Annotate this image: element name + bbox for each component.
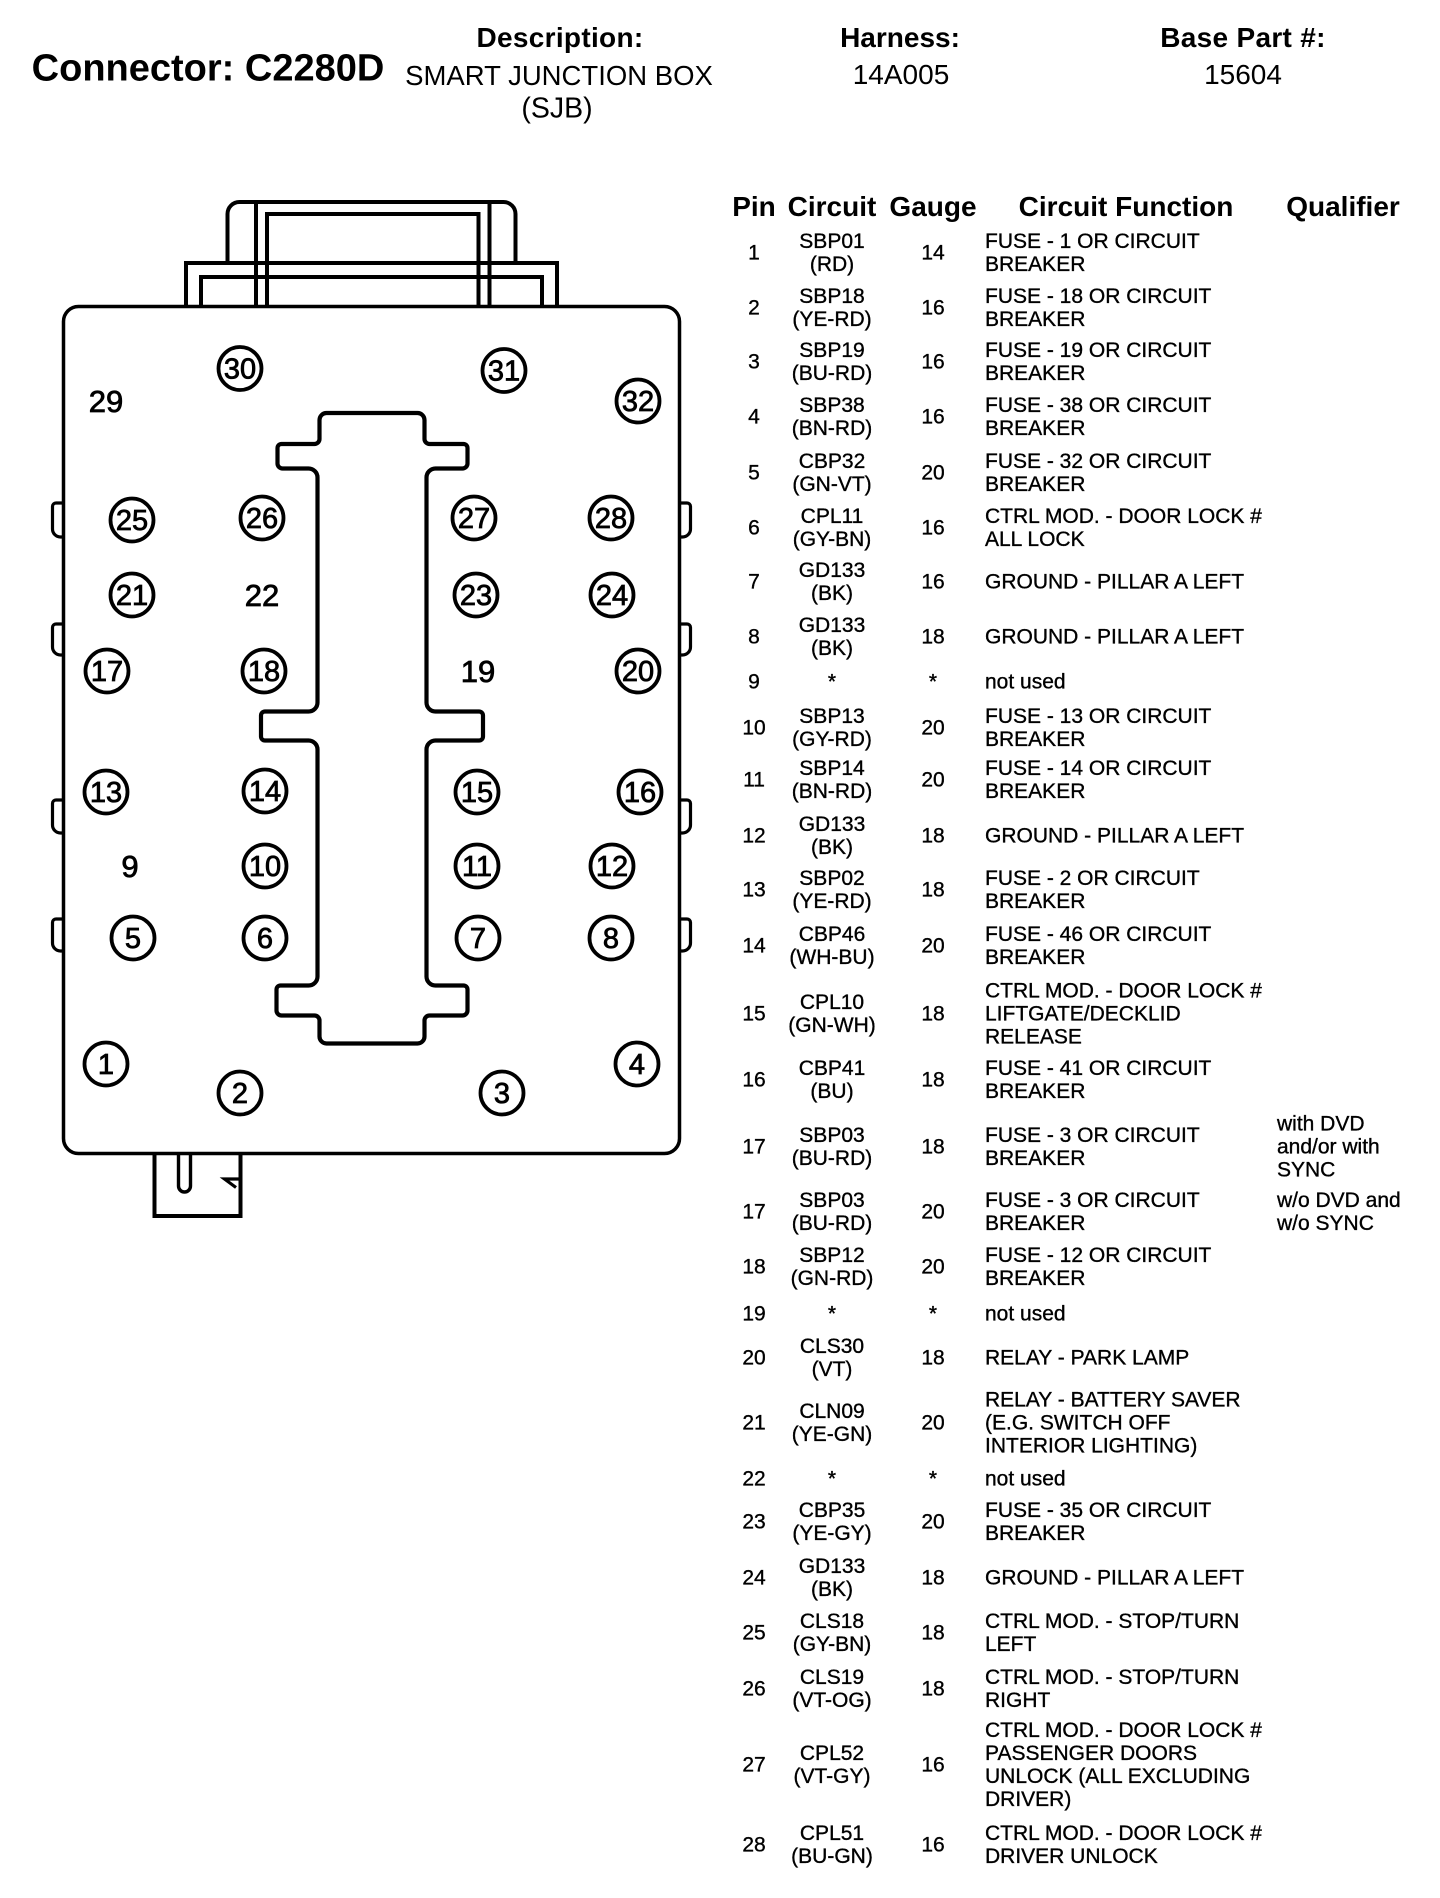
- pin 5: [112, 917, 155, 960]
- svg-text:20: 20: [622, 656, 654, 688]
- description value line 2: [521, 92, 592, 125]
- svg-text:30: 30: [224, 354, 256, 386]
- pin 20: [617, 650, 660, 693]
- pin 28: [590, 497, 633, 540]
- left edge tab 2: [53, 624, 65, 655]
- table row pin 18: [742, 1255, 765, 1278]
- right edge tab 4: [679, 919, 691, 951]
- table row pin 25: [742, 1621, 765, 1644]
- pin 8: [590, 917, 633, 960]
- svg-text:7: 7: [470, 923, 486, 955]
- svg-text:16: 16: [624, 777, 656, 809]
- svg-text:23: 23: [460, 580, 492, 612]
- svg-text:12: 12: [596, 851, 628, 883]
- table row pin 17b: [742, 1201, 765, 1224]
- pin 12: [591, 845, 634, 888]
- svg-text:22: 22: [245, 578, 279, 613]
- table row pin 5: [748, 462, 760, 485]
- svg-text:4: 4: [629, 1049, 645, 1081]
- svg-text:24: 24: [596, 580, 628, 612]
- table header: Pin: [732, 191, 776, 223]
- table row pin 21: [742, 1411, 765, 1434]
- table row pin 24: [742, 1566, 765, 1589]
- table row pin 28: [742, 1834, 765, 1857]
- pin 6: [244, 917, 287, 960]
- connector body outline: [64, 307, 680, 1154]
- table row pin 7: [748, 571, 760, 594]
- top latch tab divider right: [488, 204, 492, 306]
- table row pin 6: [748, 517, 760, 540]
- top latch tab (inner rectangle): [267, 214, 479, 306]
- svg-text:2: 2: [232, 1078, 248, 1110]
- table row pin 26: [742, 1677, 765, 1700]
- svg-text:29: 29: [89, 384, 123, 419]
- table row pin 3: [748, 351, 760, 374]
- svg-text:28: 28: [595, 503, 627, 535]
- table row pin 17: [742, 1136, 765, 1159]
- pin 4: [616, 1043, 659, 1086]
- right edge tab 3: [679, 800, 691, 833]
- left edge tab 1: [53, 503, 65, 537]
- connector face drawing: [0, 0, 760, 1280]
- table row pin 22: [742, 1468, 765, 1491]
- pin 27: [453, 497, 496, 540]
- top mounting tab (wide outer): [186, 263, 557, 306]
- table row pin 27: [742, 1754, 765, 1777]
- left edge tab 4: [53, 919, 65, 951]
- table row pin 4: [748, 406, 760, 429]
- left edge tab 3: [53, 800, 65, 833]
- svg-text:21: 21: [116, 580, 148, 612]
- table row pin 2: [748, 296, 760, 319]
- svg-text:3: 3: [494, 1078, 510, 1110]
- svg-text:8: 8: [603, 923, 619, 955]
- table row pin 12: [742, 825, 765, 848]
- pin 18: [243, 650, 286, 693]
- pin 7: [457, 917, 500, 960]
- svg-text:6: 6: [257, 923, 273, 955]
- pin 3: [481, 1072, 524, 1115]
- pin 26: [241, 497, 284, 540]
- description value line 1: [405, 60, 713, 92]
- top latch tab divider left: [254, 204, 258, 306]
- table row pin 15: [742, 1002, 765, 1025]
- pin 17: [86, 650, 129, 693]
- header label: Description: [477, 22, 644, 54]
- table row pin 16: [742, 1069, 765, 1092]
- table header: Qualifier: [1286, 191, 1400, 223]
- bottom tab slot: [179, 1155, 191, 1192]
- svg-text:1: 1: [98, 1049, 114, 1081]
- pin 11: [456, 845, 499, 888]
- page title: Connector: C2280D: [32, 48, 385, 91]
- pin 25: [111, 499, 154, 542]
- table header: Circuit Function: [1019, 191, 1234, 223]
- svg-text:14: 14: [249, 776, 281, 808]
- svg-text:13: 13: [90, 777, 122, 809]
- svg-text:15: 15: [461, 777, 493, 809]
- pin 1: [85, 1043, 128, 1086]
- svg-text:32: 32: [622, 386, 654, 418]
- right edge tab 1: [679, 503, 691, 537]
- svg-text:11: 11: [462, 851, 492, 883]
- pin 10: [244, 845, 287, 888]
- table row pin 10: [742, 716, 765, 739]
- svg-text:10: 10: [249, 851, 281, 883]
- table header: Circuit: [788, 191, 877, 223]
- pin 23: [455, 574, 498, 617]
- svg-text:26: 26: [246, 503, 278, 535]
- table row pin 14: [742, 935, 765, 958]
- pin 21: [111, 574, 154, 617]
- pin 13: [85, 771, 128, 814]
- svg-text:17: 17: [91, 656, 123, 688]
- base part value: [1204, 59, 1282, 91]
- table header: Gauge: [889, 191, 976, 223]
- svg-text:27: 27: [458, 503, 490, 535]
- pin 31: [483, 349, 526, 392]
- svg-text:9: 9: [121, 849, 138, 884]
- svg-text:25: 25: [116, 505, 148, 537]
- table row pin 23: [742, 1510, 765, 1533]
- pin 14: [244, 770, 287, 813]
- svg-text:19: 19: [461, 654, 495, 689]
- table row pin 13: [742, 879, 765, 902]
- header label: Harness: [840, 22, 960, 54]
- table row pin 11: [743, 769, 765, 792]
- svg-text:18: 18: [248, 656, 280, 688]
- central I-beam keying cutout: [261, 413, 483, 1044]
- svg-text:31: 31: [488, 356, 520, 388]
- table row pin 8: [748, 626, 760, 649]
- pin 32: [617, 380, 660, 423]
- top latch tab (tall outer): [228, 202, 516, 262]
- svg-text:5: 5: [125, 923, 141, 955]
- bottom index tab: [155, 1155, 241, 1216]
- table row pin 1: [748, 242, 760, 265]
- table row pin 19: [742, 1302, 765, 1325]
- pin 24: [591, 574, 634, 617]
- pin 15: [456, 771, 499, 814]
- table row pin 9: [748, 671, 760, 694]
- pin 30: [219, 347, 262, 390]
- pin 2: [219, 1072, 262, 1115]
- harness value: [853, 59, 950, 91]
- table row pin 20: [742, 1346, 765, 1369]
- header label: Base Part #: [1160, 22, 1325, 54]
- pin 16: [619, 771, 662, 814]
- right edge tab 2: [679, 624, 691, 655]
- top mounting tab (wide inner): [201, 277, 542, 306]
- bottom tab notch: [225, 1179, 241, 1188]
